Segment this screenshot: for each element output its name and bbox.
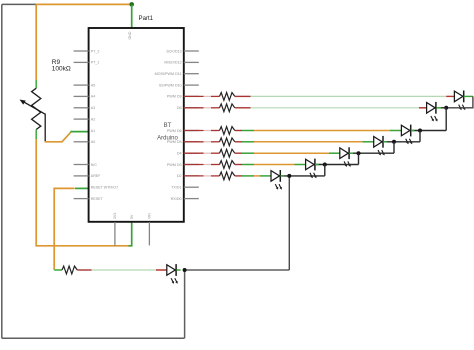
svg-text:A4: A4 (91, 95, 95, 99)
wire LED4 cathode to J4 (384, 141, 421, 143)
wire green into LED4 (363, 141, 374, 143)
wire green GND drop to IC (131, 4, 133, 28)
svg-text:PWM D6: PWM D6 (167, 129, 182, 133)
ic Part1 Arduino BT body (89, 28, 184, 222)
wire green into LED5 (329, 152, 340, 154)
svg-text:RESET WTI/I/O7: RESET WTI/I/O7 (91, 186, 118, 190)
wire LED8 node to J7 riser horizontal (185, 269, 290, 271)
node GND junction (129, 2, 134, 7)
wire D7 orange to bottom resistor (54, 188, 74, 270)
resistor R4 (220, 138, 235, 146)
resistor R1 (220, 93, 235, 101)
wire R4 green (242, 141, 254, 143)
svg-text:D2: D2 (177, 174, 182, 178)
pin labels bottom (113, 213, 152, 219)
resistor R6 (220, 161, 235, 169)
wire J2 drop (445, 108, 447, 131)
pin stubs bottom (115, 222, 149, 246)
node J4 (392, 140, 396, 144)
svg-text:TX/D1: TX/D1 (171, 186, 181, 190)
wire green 5V drop (129, 222, 132, 246)
svg-text:A5: A5 (91, 83, 95, 87)
wire D2 red lead (184, 175, 204, 177)
svg-text:GND: GND (128, 31, 132, 39)
wire R3 out red (235, 130, 242, 132)
wire R3 orange (254, 130, 390, 132)
svg-text:SCK/D13: SCK/D13 (166, 49, 181, 53)
wire R8 to LED8 pale (92, 269, 157, 271)
wire ground bus left vertical (1, 4, 3, 338)
svg-text:D8: D8 (177, 106, 182, 110)
wire R4 out red (235, 141, 242, 143)
resistor R7 (220, 172, 235, 180)
svg-text:MISO/D12: MISO/D12 (164, 61, 181, 65)
wire top gray segment (2, 3, 36, 5)
led LED1 (454, 91, 465, 111)
led LED3 (401, 125, 412, 145)
wire pot wiper vertical (44, 114, 46, 142)
wire pot bottom orange to 5V rail (36, 139, 129, 246)
wire green into LED6 (295, 164, 306, 166)
wire D8 red lead (184, 107, 204, 109)
wire D9 red lead (184, 95, 204, 97)
node J7 (287, 174, 291, 178)
wire LED1 hook down (446, 96, 473, 107)
wire R6 green (242, 164, 254, 166)
wire J3 drop (419, 131, 421, 142)
wire D4 red lead (184, 152, 204, 154)
led LED8 (167, 264, 178, 284)
svg-text:A0: A0 (91, 140, 95, 144)
wire J6 drop (324, 165, 326, 176)
wire wiper orange horizontal (45, 132, 71, 142)
svg-text:100kΩ: 100kΩ (52, 66, 71, 73)
svg-text:AREF: AREF (91, 174, 101, 178)
svg-text:3V3: 3V3 (113, 213, 117, 219)
resistor R3 (220, 127, 235, 135)
svg-text:PT_1: PT_1 (91, 61, 100, 65)
svg-text:MOSI/PWM D11: MOSI/PWM D11 (155, 72, 182, 76)
wire J2 horizontal (441, 107, 446, 109)
wire green into LED7 (260, 175, 271, 177)
led LED5 (340, 147, 351, 167)
wire R5 out red (235, 152, 242, 154)
wire red into LED2 (419, 107, 427, 109)
wire LED5 cathode to J5 (350, 152, 394, 154)
led LED4 (374, 136, 385, 156)
wire orange drop to pot top (35, 4, 37, 80)
wire R1 out red (235, 95, 251, 97)
wire R4 orange (254, 141, 363, 143)
wire J4 drop (393, 142, 395, 153)
wire R5 orange (254, 152, 329, 154)
wire R2 out red (235, 107, 251, 109)
svg-text:N/C: N/C (91, 163, 98, 167)
wire D6 red lead (184, 130, 204, 132)
svg-text:A3: A3 (91, 106, 95, 110)
resistor R2 (220, 104, 235, 112)
wire green stub to R8 (54, 269, 62, 271)
node J6 (323, 163, 327, 167)
wire red into LED8 (156, 269, 167, 271)
wire R7 out red (235, 175, 242, 177)
node J5 (357, 151, 361, 155)
pin labels right (155, 49, 182, 201)
node J3 (418, 129, 422, 133)
led LED2 (427, 102, 438, 122)
svg-text:PWM D5: PWM D5 (167, 140, 182, 144)
svg-text:PWM D3: PWM D3 (167, 163, 182, 167)
wire R8 out red (77, 269, 91, 271)
wire R6 out red (235, 164, 242, 166)
svg-text:PT_2: PT_2 (91, 49, 100, 53)
wire R1 to LED1 pale (251, 95, 447, 97)
resistor R8 (62, 266, 77, 274)
wire R2 to LED2 pale (251, 107, 420, 109)
svg-text:D4: D4 (177, 152, 182, 156)
led LED6 (306, 159, 317, 179)
wire ground bus bottom horizontal (2, 337, 185, 339)
wire top orange GND rail (36, 3, 132, 5)
wire LED8 cathode stub (176, 269, 180, 271)
wire wiper green into A1 (70, 131, 88, 133)
svg-text:SS/PWM D10: SS/PWM D10 (159, 83, 182, 87)
svg-text:PWM D9: PWM D9 (167, 95, 182, 99)
potentiometer R9 (20, 80, 46, 140)
wire red into LED1 (446, 95, 454, 97)
label R9 100k (52, 59, 71, 73)
wire D3 red lead (184, 164, 204, 166)
pin stubs right (184, 51, 199, 199)
wire LED6 cathode to J6 (315, 164, 358, 166)
pin stubs left (74, 51, 89, 199)
wire J7 to bottom riser vertical (288, 176, 290, 270)
wire LED3 cathode to J3 (411, 130, 446, 132)
svg-text:VIN: VIN (148, 213, 152, 219)
wire R7 green (242, 175, 254, 177)
wire ground bus riser to LED8 node (184, 270, 186, 338)
svg-text:RX/D0: RX/D0 (171, 197, 182, 201)
wire green into RESET BT pin (75, 187, 89, 189)
svg-text:A1: A1 (91, 129, 95, 133)
wire R6 orange (254, 164, 295, 166)
resistor R5 (220, 149, 235, 157)
wire J5 drop (358, 153, 360, 164)
pin labels left (91, 49, 118, 201)
svg-text:5V: 5V (130, 214, 134, 219)
svg-text:A2: A2 (91, 117, 95, 121)
led LED7 (271, 170, 282, 190)
wire LED2 cathode stub (436, 107, 441, 109)
wire R5 green (242, 152, 254, 154)
wire LED1 cathode green (464, 95, 473, 97)
wire R3 green (242, 130, 254, 132)
node J2 (444, 106, 448, 110)
svg-text:Part1: Part1 (139, 15, 154, 22)
wire green into LED3 (390, 130, 401, 132)
svg-text:RESET: RESET (91, 197, 104, 201)
node J8 (183, 268, 187, 272)
wire D5 red lead (184, 141, 204, 143)
wire LED7 cathode to J7 (281, 175, 325, 177)
label BT Arduino (157, 123, 178, 141)
wire R7 orange (254, 175, 260, 177)
